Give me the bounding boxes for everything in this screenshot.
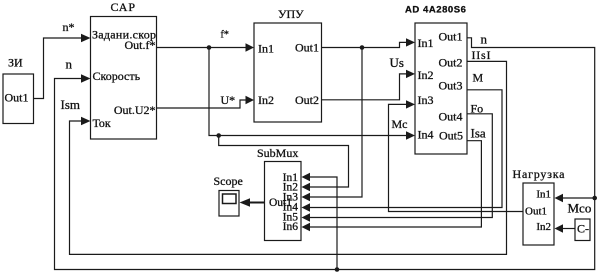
svg-text:SubMux: SubMux — [257, 146, 298, 160]
svg-text:AD 4A280S6: AD 4A280S6 — [405, 5, 466, 16]
block Nagruzka (Нагрузка load) — [513, 167, 566, 245]
svg-text:IIsI: IIsI — [472, 48, 491, 62]
svg-text:Out3: Out3 — [439, 79, 463, 93]
block ZI (ЗИ source) — [3, 56, 34, 124]
svg-text:ЗИ: ЗИ — [8, 56, 23, 70]
svg-text:Скорость: Скорость — [93, 69, 141, 83]
svg-text:Out1: Out1 — [295, 41, 319, 55]
wire UPU Out1 branch to SubMux In3 — [310, 48, 362, 198]
svg-text:Out1: Out1 — [269, 197, 292, 209]
wire n branch to Nagruzka In1 — [563, 197, 595, 199]
node on f* wire — [207, 45, 212, 50]
svg-text:n*: n* — [63, 20, 75, 34]
svg-text:n: n — [481, 32, 488, 47]
block SubMux — [257, 146, 301, 241]
svg-text:In1: In1 — [536, 189, 551, 201]
svg-text:Out5: Out5 — [439, 129, 463, 143]
node on UPU Out1 wire — [360, 45, 365, 50]
svg-text:Out1: Out1 — [525, 206, 547, 218]
wire AD Out4 (Fo) to SubMux In5 — [310, 114, 492, 218]
svg-text:In2: In2 — [258, 93, 274, 107]
svg-text:In2: In2 — [536, 221, 551, 233]
wire AD Out5 (Isa) to SubMux In6 — [310, 141, 481, 227]
wire SubMux Out1 to Scope (thick) — [250, 202, 265, 204]
wire AD Out2 (IIsI) loop to SAR current input — [70, 61, 507, 254]
svg-text:Scope: Scope — [214, 174, 243, 188]
svg-text:In1: In1 — [258, 42, 274, 56]
svg-text:In1: In1 — [418, 36, 434, 50]
wire SAR Out.f* to UPU In1 — [157, 47, 246, 49]
svg-text:Out.f*: Out.f* — [125, 38, 156, 52]
svg-text:f*: f* — [221, 30, 229, 41]
svg-text:Out4: Out4 — [439, 110, 463, 124]
wire SAR Out.U2* to UPU In2 — [157, 100, 246, 108]
svg-text:M: M — [473, 71, 484, 85]
svg-text:САР: САР — [111, 0, 136, 14]
svg-text:n: n — [66, 57, 73, 72]
node on bottom n bus — [335, 267, 340, 272]
wire AD Out1 (n) loop to SAR speed input — [55, 38, 595, 270]
wire UPU Out1 to AD In1 — [322, 42, 407, 47]
svg-text:U*: U* — [221, 93, 236, 107]
node on right n bus — [592, 196, 597, 201]
block C constant — [575, 219, 590, 241]
svg-text:Out2: Out2 — [295, 93, 319, 107]
svg-text:Us: Us — [390, 55, 404, 70]
svg-text:Ism: Ism — [61, 97, 81, 112]
wire UPU Out2 (Us) to AD In2 — [322, 74, 407, 100]
svg-text:Out1: Out1 — [439, 30, 463, 44]
block Scope — [214, 174, 243, 216]
svg-text:In2: In2 — [418, 68, 434, 82]
wire f* branch down to AD In4 — [209, 48, 406, 136]
wire Nagruzka Out1 (Mc) to AD In3 — [389, 104, 524, 211]
block SAR (САР controller) — [91, 0, 157, 139]
svg-text:C-: C- — [577, 222, 589, 236]
svg-text:Out1: Out1 — [5, 91, 29, 105]
svg-text:Out2: Out2 — [439, 56, 463, 70]
svg-text:Ток: Ток — [93, 116, 111, 130]
block UPU (УПУ) — [254, 7, 322, 122]
svg-text:Isa: Isa — [471, 126, 486, 141]
node on f* branch — [216, 133, 221, 138]
wire ZI Out1 to SAR speed-ref input — [34, 38, 82, 99]
svg-text:In4: In4 — [418, 128, 434, 142]
wire n branch to SubMux In1 — [310, 177, 337, 270]
wire f* branch to SubMux In2 — [219, 136, 349, 188]
svg-text:In6: In6 — [283, 221, 299, 233]
wire AD Out3 (M) to SubMux In4 — [310, 90, 502, 208]
svg-text:Mc: Mc — [392, 117, 408, 131]
svg-text:Fo: Fo — [471, 102, 484, 116]
svg-text:УПУ: УПУ — [278, 7, 304, 21]
svg-text:In3: In3 — [418, 93, 434, 107]
svg-text:Мсо: Мсо — [568, 201, 592, 216]
wire C constant to Nagruzka In2 — [563, 228, 575, 230]
svg-text:Out.U2*: Out.U2* — [114, 103, 156, 117]
block AD motor (АД 4А280S6) — [405, 5, 467, 155]
svg-text:Нагрузка: Нагрузка — [513, 167, 566, 181]
